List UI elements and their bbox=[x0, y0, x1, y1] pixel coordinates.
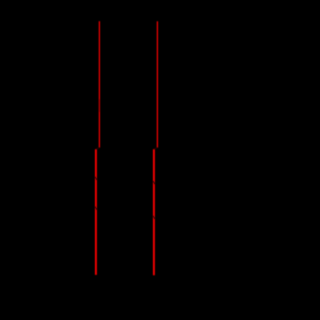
left line thin segment dim patch bbox=[99, 99, 101, 112]
left line notch 1 bbox=[95, 177, 98, 180]
right line notch 2 bbox=[153, 216, 156, 219]
right line lower thick segment bbox=[153, 149, 155, 275]
left line notch 2 bbox=[95, 207, 98, 210]
right line joint connector bbox=[154, 148, 158, 150]
left line lower thick segment bbox=[95, 149, 97, 275]
left line upper thin segment bbox=[98, 21, 100, 147]
right line upper thin segment bbox=[156, 21, 158, 147]
left line joint connector bbox=[96, 148, 100, 150]
right line notch 1 bbox=[153, 181, 156, 184]
